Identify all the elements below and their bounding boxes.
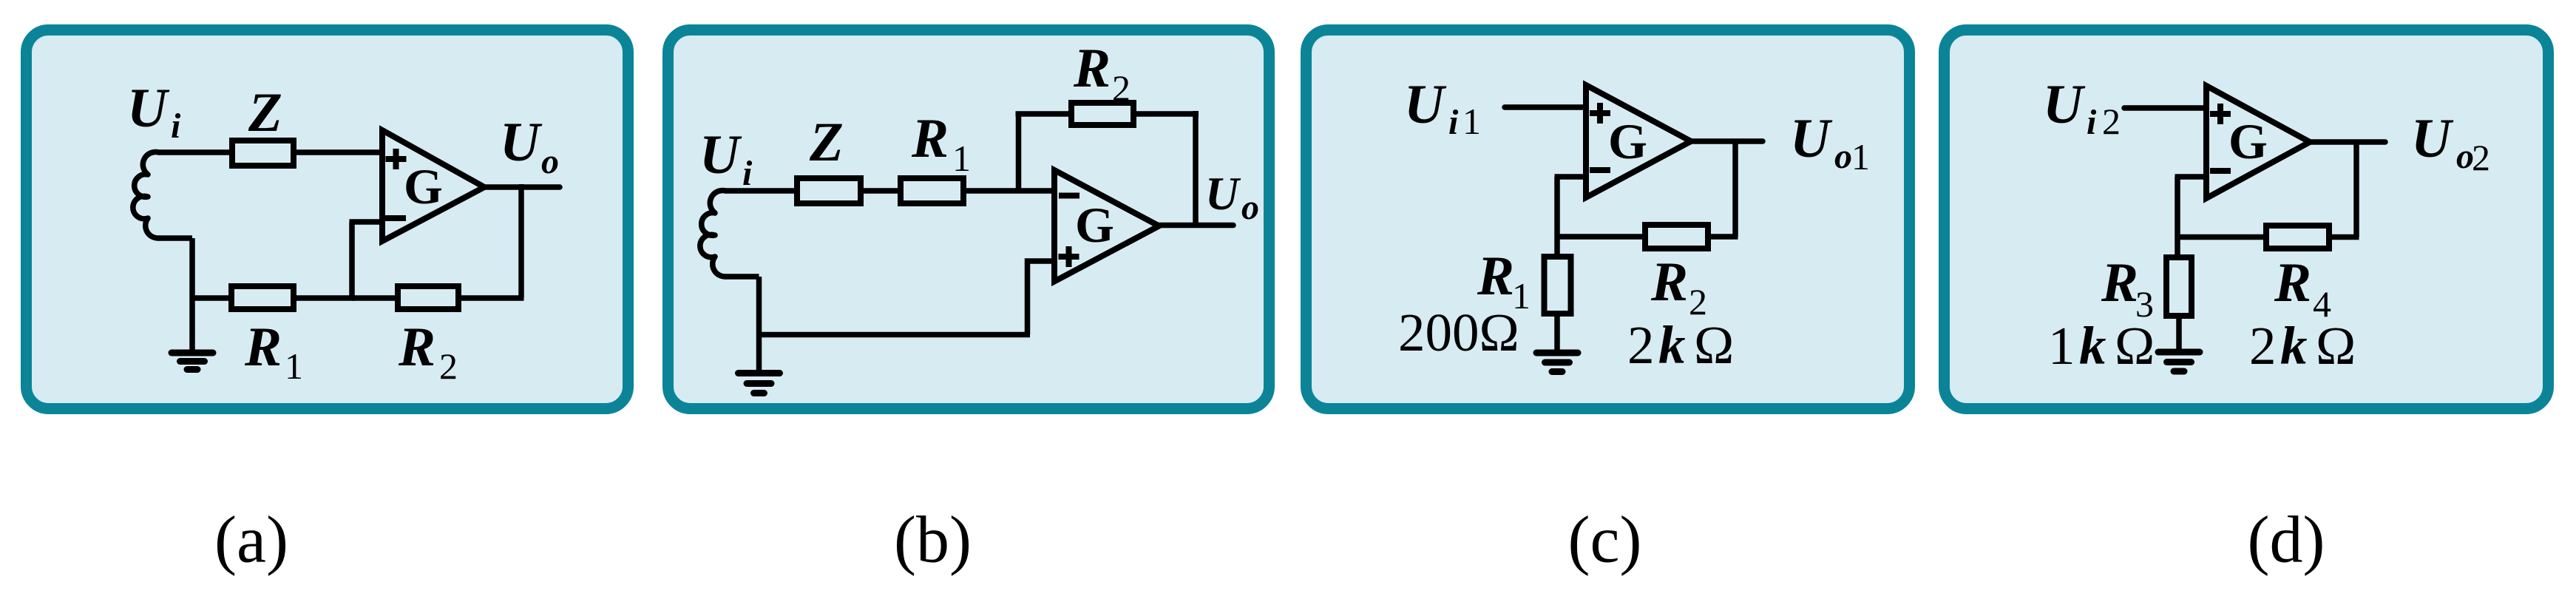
svg-text:1: 1 [2048,316,2075,376]
svg-text:1: 1 [952,138,971,179]
source coil (b) [700,190,726,277]
svg-text:R: R [2101,252,2138,314]
svg-text:k: k [1658,315,1686,375]
svg-text:U: U [1790,108,1833,169]
panel (c) frame [1306,30,1910,409]
svg-text:i: i [742,154,753,193]
resistor R2 (a) [398,286,458,309]
resistor R1 (a) [231,286,294,309]
svg-text:2: 2 [2249,316,2277,376]
wire R1 to junction (a) [294,295,355,301]
svg-text:i: i [2087,103,2097,142]
wire output Uo (b) [1159,223,1234,229]
wire junction up to feedback (b) [1016,114,1022,191]
op-amp G (d) [2206,86,2310,198]
resistor R1 (c) [1545,257,1571,314]
wire feedback (d) [2177,234,2359,240]
wire input Ui2 (d) [2124,105,2206,111]
wire corner to R1 (a) [190,295,232,301]
svg-text:1: 1 [1851,136,1870,178]
wire coil bottom (b) [725,274,759,280]
svg-text:o: o [1241,188,1259,227]
resistor R2 (b) [1071,103,1133,125]
ground (b) [739,374,780,393]
svg-text:(a): (a) [214,504,288,577]
svg-text:o: o [541,142,559,181]
wire ground vertical (a) [189,238,195,351]
minus input marker (b) [1059,193,1079,199]
wire Z to op-amp + (a) [294,149,382,155]
svg-text:G: G [1608,113,1647,169]
svg-text:U: U [127,78,170,139]
svg-text:(c): (c) [1568,504,1642,577]
resistor R4 (d) [2266,226,2329,249]
wire feedback down to output (b) [1193,111,1199,225]
panel (a) frame [27,30,628,409]
svg-text:1: 1 [285,345,303,387]
plus input marker (c) [1590,103,1610,124]
svg-text:G: G [404,158,443,214]
svg-text:2: 2 [1627,315,1655,375]
svg-text:(b): (b) [894,504,972,577]
svg-text:k: k [2079,316,2106,376]
wire minus horizontal (d) [2175,174,2207,180]
svg-text:2: 2 [2102,101,2121,142]
svg-text:U: U [699,124,742,186]
wire feedback (c) [1557,234,1738,240]
svg-text:U: U [1404,74,1447,135]
wire output Uo1 (c) [1691,138,1763,144]
wire R2 to output node (a) [458,295,524,301]
op-amp G (c) [1586,85,1691,197]
resistor R3 (d) [2166,257,2192,316]
wire output Uo (a) [484,184,560,190]
wire R3 to ground (d) [2176,316,2182,350]
wire minus vertical (d) [2175,177,2180,257]
wire R1 to ground (c) [1554,314,1560,351]
resistor Z (a) [232,141,294,166]
wire plus input L (b) [1028,261,1055,335]
svg-text:U: U [500,112,543,173]
wire output Uo2 (d) [2310,139,2385,145]
wire minus horizontal (c) [1555,174,1587,180]
wire junction to R2 (a) [352,295,398,301]
svg-text:Ω: Ω [2115,316,2155,376]
wire Ui to Z (a) [158,149,232,155]
svg-text:i: i [171,107,181,146]
ground (c) [1536,353,1578,372]
minus input marker (c) [1590,167,1610,173]
svg-text:G: G [1075,197,1114,253]
svg-text:U: U [1205,168,1241,220]
wire bottom return (b) [759,332,1031,338]
svg-text:R: R [1073,38,1111,99]
plus input marker (a) [386,149,407,169]
ground (d) [2158,352,2200,371]
wire feedback left (b) [1016,111,1072,117]
resistor Z (b) [797,178,861,203]
op-amp G (a) [382,130,484,241]
svg-text:o: o [1834,137,1852,176]
source coil (a) [133,152,159,238]
wire minus input vertical (a) [349,222,355,301]
svg-text:1: 1 [1462,101,1481,142]
svg-text:k: k [2280,316,2308,376]
svg-text:(d): (d) [2248,504,2325,577]
wire output down (c) [1732,141,1738,237]
plus input marker (d) [2210,104,2231,124]
svg-text:R: R [2274,252,2311,314]
svg-text:U: U [2043,74,2086,135]
svg-text:2: 2 [439,345,458,387]
svg-text:R: R [1477,246,1514,307]
plus input marker (b) [1059,246,1079,267]
svg-text:R: R [244,317,282,378]
svg-text:G: G [2228,113,2268,169]
wire feedback right (b) [1133,111,1199,117]
wire Ui to Z (b) [725,188,797,194]
minus input marker (d) [2210,168,2231,174]
wire ground vertical (b) [756,277,762,371]
wire R1 to op-amp minus (b) [963,188,1054,194]
svg-text:U: U [2411,108,2454,169]
svg-text:2: 2 [1112,67,1131,109]
op-amp G (b) [1054,170,1159,282]
svg-text:2: 2 [2472,137,2490,178]
svg-text:R: R [911,108,949,169]
svg-text:Z: Z [248,82,282,143]
panel (b) frame [668,30,1270,409]
wire output down (d) [2353,142,2359,237]
ground (a) [172,353,213,370]
svg-text:R: R [398,317,435,378]
wire Z to R1 (b) [861,188,901,194]
resistor R1 (b) [901,178,963,203]
resistor R2 (c) [1645,225,1708,249]
svg-text:Ω: Ω [2316,316,2356,376]
svg-text:R: R [1650,251,1688,313]
svg-text:200Ω: 200Ω [1398,302,1519,362]
svg-text:Ω: Ω [1694,315,1734,375]
panel (d) frame [1945,30,2549,409]
wire minus input horizontal (a) [350,219,383,225]
wire input Ui1 (c) [1505,104,1586,110]
svg-text:Z: Z [809,112,844,173]
minus input marker (a) [385,215,406,221]
wire minus vertical (c) [1554,177,1560,257]
svg-text:i: i [1448,103,1459,142]
wire feedback down (a) [518,184,524,298]
wire coil bottom (a) [158,235,192,241]
